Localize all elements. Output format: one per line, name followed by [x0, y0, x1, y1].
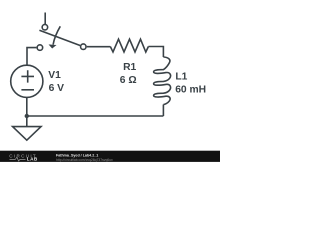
svg-text:6 Ω: 6 Ω: [120, 75, 137, 86]
svg-text:6 V: 6 V: [49, 83, 65, 94]
svg-text:Fathma_Syed / Lab4.2_1: Fathma_Syed / Lab4.2_1: [56, 153, 98, 157]
watermark author line: [56, 153, 98, 157]
svg-text:LAB: LAB: [27, 157, 38, 162]
svg-text:http://circuitlab.com/cvq28q73: http://circuitlab.com/cvq28q737svq6ux: [56, 158, 113, 162]
watermark bar: [0, 151, 220, 162]
switch SW common terminal circle: [81, 44, 87, 50]
CircuitLab logo LAB: [27, 157, 38, 162]
voltage source V1 circle: [11, 65, 43, 97]
svg-text:R1: R1: [123, 62, 136, 73]
wire junction to ground: [26, 116, 28, 127]
switch SW actuation arrow: [53, 26, 60, 44]
switch SW lever: [39, 30, 80, 45]
CircuitLab logo CIRCUIT: [9, 154, 37, 159]
voltage source V1 plus sign: [21, 70, 34, 82]
inductor L1: [154, 57, 171, 105]
svg-text:60 mH: 60 mH: [175, 85, 206, 96]
wire inductor bottom to bottom rail: [162, 105, 164, 117]
resistor R1: [110, 39, 148, 52]
wire source bottom to junction: [26, 97, 28, 116]
watermark url line: [56, 158, 113, 162]
switch SW throw-1 terminal circle: [42, 24, 48, 30]
voltage source V1 minus sign: [21, 89, 34, 91]
wire top stub to switch throw 1: [44, 13, 46, 25]
svg-text:L1: L1: [175, 72, 187, 83]
CircuitLab logo waveform: [10, 157, 26, 161]
node junction dot: [25, 114, 29, 118]
wire switch throw-2 to source top: [27, 48, 36, 66]
wire resistor to inductor top: [148, 47, 163, 58]
wire bottom rail: [27, 115, 164, 117]
switch SW throw-2 terminal circle: [37, 45, 43, 51]
svg-text:V1: V1: [48, 70, 61, 81]
wire switch common to resistor: [87, 46, 111, 48]
ground symbol: [13, 127, 41, 141]
